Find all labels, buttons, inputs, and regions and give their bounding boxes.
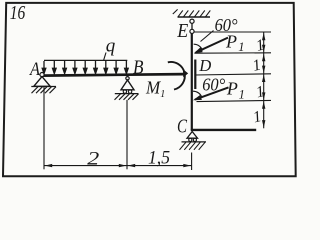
pin support A: hinge circle xyxy=(40,73,44,77)
pin support A: ground line xyxy=(31,86,56,88)
svg-text:A: A xyxy=(28,59,40,80)
link support at E: upper hinge circle xyxy=(190,19,194,23)
svg-text:B: B xyxy=(133,57,144,78)
lower force P1 line xyxy=(195,87,229,99)
roller support B: rollers xyxy=(123,90,126,93)
svg-text:1,5: 1,5 xyxy=(148,147,170,168)
right dimension arrowheads xyxy=(262,33,265,128)
svg-text:16: 16 xyxy=(10,2,25,24)
hinge bar at D xyxy=(194,60,196,90)
roller support C: rollers xyxy=(189,138,192,141)
extension line below B xyxy=(126,100,128,169)
ceiling line at E xyxy=(178,16,211,18)
svg-text:C: C xyxy=(177,117,188,138)
roller support C: hatching xyxy=(180,142,206,150)
extension line at upper P1 level xyxy=(195,52,272,54)
svg-text:2: 2 xyxy=(87,148,100,169)
link support at E: link bar xyxy=(191,23,193,29)
thick line at C level xyxy=(191,129,256,131)
vertical member E-C xyxy=(191,34,193,131)
bottom dimension line xyxy=(44,165,192,167)
upper force P1 arrowhead xyxy=(194,47,203,53)
roller support C: ground line xyxy=(182,141,207,143)
extension line at E level xyxy=(194,31,271,33)
moment arc M1 xyxy=(168,62,185,90)
svg-text:60°: 60° xyxy=(202,74,225,94)
extension line at D level xyxy=(195,74,271,75)
roller support C: triangle xyxy=(187,132,198,139)
border frame xyxy=(3,3,296,176)
upper 60 leader line xyxy=(201,31,214,42)
svg-text:D: D xyxy=(198,56,211,75)
extension line below C xyxy=(191,153,193,171)
roller support B: ground line xyxy=(115,93,139,95)
beam AB xyxy=(43,74,184,76)
svg-text:P: P xyxy=(226,78,238,98)
roller support B: hatching xyxy=(115,94,139,100)
roller support B: triangle xyxy=(121,80,134,90)
q leader line xyxy=(104,53,106,61)
lower force P1 arrowhead xyxy=(193,95,202,100)
right dimension line xyxy=(263,32,265,128)
svg-text:1: 1 xyxy=(160,89,165,100)
pin support A: hatching xyxy=(32,87,57,94)
svg-text:1: 1 xyxy=(239,87,245,101)
svg-text:q: q xyxy=(106,36,116,57)
upper force P1 line xyxy=(196,38,228,53)
lower angle arc xyxy=(193,91,202,97)
svg-text:P: P xyxy=(225,31,237,51)
distributed load arrows xyxy=(42,61,128,74)
ceiling hatching xyxy=(173,9,211,16)
svg-text:1: 1 xyxy=(238,40,244,54)
extension line at lower P1 level xyxy=(197,100,272,101)
pin support A: triangle xyxy=(34,77,50,87)
extension line below A xyxy=(43,87,45,169)
svg-text:M: M xyxy=(145,78,161,98)
link support at E: lower hinge circle xyxy=(190,29,194,33)
distributed load q line xyxy=(44,59,127,61)
roller support B: hinge circle xyxy=(126,77,129,80)
svg-text:E: E xyxy=(176,21,188,42)
bottom dimension arrowheads xyxy=(45,164,191,167)
moment arrowhead xyxy=(183,69,188,77)
upper angle arc xyxy=(194,44,203,50)
